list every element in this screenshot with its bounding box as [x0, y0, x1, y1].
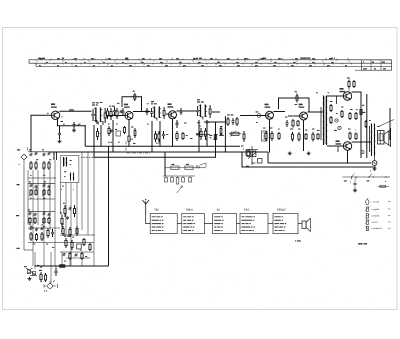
- transistor TS1: [51, 111, 59, 119]
- driver transformer T4: [321, 96, 327, 146]
- capacitor C5: [72, 122, 79, 132]
- svg-text:TS1: TS1: [154, 209, 159, 212]
- TS6 bias resistors: [341, 110, 357, 120]
- label S41 left: [17, 184, 20, 185]
- block diagram loudspeaker: [302, 218, 310, 231]
- value labels RF section: [47, 103, 244, 146]
- transistor TS6: [343, 92, 351, 100]
- label TS4: [265, 104, 271, 108]
- wire drop T1 b: [100, 125, 102, 146]
- dial scale captions: [38, 58, 386, 70]
- dial scale ticks middle row: [37, 60, 349, 62]
- drawing number bottom right: [358, 243, 367, 244]
- svg-text:= N.T.C.: = N.T.C.: [371, 221, 379, 224]
- transistor TS2: [125, 112, 133, 120]
- label AF184 on wire: [69, 109, 74, 110]
- micro components AF section: [337, 96, 367, 154]
- dial scale ticks lower row: [36, 63, 351, 65]
- row2 band components: [29, 181, 51, 195]
- label T1: [92, 102, 99, 105]
- dial scale band lines: [29, 60, 392, 67]
- resistor on TS4 TS5 loop: [295, 91, 299, 105]
- AGC cluster: [227, 114, 238, 126]
- svg-text:TS5,6,7: TS5,6,7: [277, 209, 286, 212]
- detector stage box: [243, 131, 267, 142]
- resistors left of driver transformer: [330, 104, 338, 124]
- coil L1: [53, 152, 56, 160]
- wire TS5 collector to driver transformer: [308, 111, 324, 113]
- block TS4: [240, 209, 268, 234]
- output transformer T5: [370, 124, 376, 157]
- legend switch S41: [342, 174, 387, 183]
- label TS3: [168, 103, 174, 107]
- left column verticals: [28, 152, 94, 266]
- dial scale numbers lower: [39, 65, 347, 66]
- IF transformer T2: [150, 107, 165, 121]
- wire drop T2 b: [159, 121, 161, 146]
- wire loop over TS4 TS5: [279, 98, 310, 112]
- antenna trimmers row1: [29, 149, 38, 170]
- wire transformer to TS6 base: [327, 95, 343, 97]
- legend marks right: [385, 177, 391, 182]
- padder cluster upper: [60, 236, 94, 266]
- tuning gang lower cluster: [60, 212, 69, 227]
- svg-text:= drukwerk: = drukwerk: [371, 227, 383, 230]
- scan texture: [6, 31, 394, 307]
- legend switch cap and ground: [353, 180, 357, 192]
- left column value labels: [30, 175, 74, 266]
- band switch cluster bottom left: [29, 224, 54, 244]
- wire TS5 emitter drop: [303, 120, 305, 151]
- thermistor NTC: [360, 108, 365, 116]
- capacitor TS1 emitter: [58, 119, 62, 143]
- figure number 9402: [295, 240, 301, 241]
- battery vertical feeds: [35, 252, 62, 283]
- svg-text:= regelb.: = regelb.: [371, 208, 380, 211]
- legend resistor right: [378, 185, 389, 187]
- svg-text:TS2-3: TS2-3: [186, 209, 193, 212]
- wire AGC drop: [224, 116, 226, 152]
- wire bus A: [50, 151, 268, 153]
- oscillator trimmers row1: [42, 149, 51, 170]
- ground below jack: [373, 167, 377, 170]
- switch S2 extra contacts: [244, 149, 255, 156]
- label TS2: [124, 104, 130, 108]
- IF transformer T1: [91, 108, 106, 125]
- transistor TS3: [169, 111, 177, 119]
- wire bottom battery bus: [35, 265, 109, 267]
- legend row = instelb.: [365, 214, 390, 218]
- wire bus C: [268, 162, 371, 164]
- dial scale numbers upper: [40, 58, 332, 59]
- battery plug: [41, 281, 58, 292]
- volume potentiometer: [210, 129, 218, 145]
- switch bank S8 row: [163, 176, 195, 184]
- TS4 emitter resistors: [265, 131, 280, 141]
- wire TS4 collector: [274, 111, 286, 113]
- left column extra smudges: [29, 159, 64, 223]
- dial scale right box: [355, 60, 392, 70]
- label T3: [197, 99, 204, 102]
- dial pointer diamond: [19, 154, 28, 165]
- resistor TS2 emitter: [128, 131, 134, 146]
- label TS1: [51, 103, 62, 117]
- power wiring cluster: [35, 266, 47, 282]
- wire transformer to TS7 base: [327, 145, 343, 147]
- label TS6: [340, 88, 346, 92]
- wire to TS5 base: [288, 115, 299, 117]
- resistors under T2: [154, 131, 168, 142]
- wire coupling to TS4: [240, 115, 265, 117]
- wire row y243: [28, 242, 94, 244]
- left column switch dashes: [81, 152, 96, 157]
- micro components RF section: [96, 102, 222, 138]
- wire TS2 emitter drop: [128, 120, 130, 132]
- wire T3 to detector: [212, 111, 220, 113]
- dial scale ticks upper row: [40, 58, 348, 60]
- wire drop T3 b: [206, 120, 208, 146]
- legend switch S42: [367, 170, 375, 181]
- legend row = regelb.: [365, 206, 390, 211]
- wire TS1 collector to T1: [60, 110, 92, 112]
- label TS5: [299, 104, 305, 108]
- left row connectors: [24, 152, 94, 250]
- resistors above TS7: [349, 132, 357, 141]
- ferrite antenna box: [61, 155, 79, 182]
- wire node below TS1: [60, 126, 85, 147]
- wire volume drop: [215, 122, 217, 157]
- wire TS6 collector: [352, 92, 362, 158]
- TS5 emitter resistors: [291, 132, 319, 142]
- wire T2 to TS3 base: [166, 113, 168, 115]
- detector diode cluster: [196, 121, 224, 140]
- wire supply rail right: [366, 94, 368, 158]
- wire TS7 emitter down: [347, 150, 349, 163]
- wire T1 secondary to TS2: [107, 115, 125, 117]
- oscillator cluster: [108, 106, 123, 136]
- wire drop T2 a: [151, 121, 153, 152]
- svg-text:= instelb.: = instelb.: [371, 214, 380, 217]
- coupling TS4 TS5 cluster: [285, 119, 299, 128]
- value labels AF section: [256, 92, 380, 131]
- wire drop T3 a: [198, 120, 200, 152]
- IF transformer T3: [196, 105, 211, 120]
- wire bus A to bus C connector: [267, 152, 269, 163]
- block TS5,6,7: [273, 209, 298, 234]
- padder labels: [64, 234, 82, 261]
- ground TS5 stage: [307, 152, 311, 155]
- adjuster arrow: [177, 186, 183, 193]
- label S43 lower left: [17, 248, 20, 249]
- label T2: [151, 101, 157, 104]
- label TS7: [336, 140, 342, 144]
- wire detector to AGC node: [204, 121, 225, 123]
- block TS1: [150, 209, 177, 234]
- earphone jack: [372, 156, 377, 165]
- on-off switch S44: [24, 266, 37, 280]
- battery fuse blob: [59, 264, 66, 267]
- padder cluster lower: [61, 224, 78, 237]
- annotation pointer to speaker: [379, 120, 395, 127]
- block TS2-3: [182, 209, 205, 234]
- wire TS4 emitter drop: [269, 119, 271, 152]
- wire drop T1 a: [93, 125, 95, 157]
- wire bus B: [94, 156, 216, 158]
- wire riser mid: [108, 146, 110, 266]
- svg-text:TS4: TS4: [244, 209, 249, 212]
- wire right edge: [389, 108, 391, 140]
- block diagram antenna: [142, 200, 150, 224]
- oscillator coil cluster: [63, 203, 76, 217]
- coupling capacitor C34: [256, 111, 261, 117]
- battery cluster extra: [40, 266, 58, 281]
- wire TS7 collector to output transformer: [352, 141, 372, 143]
- wire drop pot row: [164, 152, 166, 176]
- chassis dash-dot corner: [126, 142, 150, 154]
- resistors above TS6: [347, 77, 355, 92]
- label S43 left: [16, 215, 19, 216]
- legend row = drukwerk: [366, 226, 390, 230]
- dial scale numbers middle: [46, 62, 334, 63]
- transistor TS4: [266, 111, 274, 119]
- label S40: [17, 147, 28, 151]
- feedback resistor over TS2: [133, 91, 136, 101]
- transistor TS5: [300, 112, 308, 120]
- svg-text:= el. cap: = el. cap: [371, 201, 380, 204]
- switch S1 contacts: [246, 146, 262, 167]
- block X1: [213, 209, 237, 234]
- wire bus D: [242, 152, 376, 167]
- wire TS1 emitter: [58, 119, 60, 129]
- wire TS3 collector to T3: [177, 110, 197, 112]
- wire TS2 collector to T2: [133, 111, 150, 113]
- wire osc drop: [112, 120, 114, 152]
- resistor chain row: [165, 163, 206, 170]
- AGC resistor horizontal: [229, 130, 241, 136]
- transistor TS7: [343, 142, 351, 150]
- wire TS1 base input: [31, 115, 51, 152]
- elco C40: [334, 126, 341, 131]
- loudspeaker: [378, 128, 391, 147]
- row3 band components: [28, 209, 51, 224]
- wire line y146: [85, 145, 240, 147]
- block diagram connecting wires: [177, 223, 302, 225]
- wire feedback loop over TS2: [122, 97, 142, 111]
- junction TS1 collector: [59, 111, 60, 112]
- wire TS3 emitter drop: [172, 119, 174, 146]
- TS3 bias components: [176, 108, 199, 141]
- ground TS4 stage: [288, 152, 292, 155]
- legend row = N.T.C.: [365, 218, 390, 224]
- resistor stack below T1: [97, 128, 102, 140]
- legend row = el. cap: [366, 198, 391, 204]
